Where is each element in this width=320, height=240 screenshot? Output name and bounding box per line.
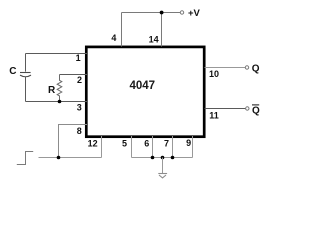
svg-text:C: C [9,66,16,77]
node: pin7 bus junction [171,156,175,160]
svg-text:+V: +V [188,8,201,19]
resistor R [57,75,62,102]
wire pin12 vertical [101,136,103,158]
svg-text:8: 8 [77,126,82,136]
wire ground bus [132,157,193,159]
svg-text:Q: Q [252,106,260,117]
trigger step input symbol [17,152,33,165]
wire pin3 (cap bottom to IC) [26,101,88,103]
IC U1 4047 (astable/monostable multivibrator) body with value label [86,47,204,137]
wire pin14 vertical [161,13,163,47]
svg-text:1: 1 [76,53,81,63]
svg-text:11: 11 [209,110,219,120]
svg-text:4: 4 [111,33,116,43]
wire pin4 vertical [121,13,123,47]
label Qbar [252,105,260,117]
svg-text:3: 3 [77,103,82,113]
svg-text:14: 14 [149,35,159,45]
svg-text:R: R [48,85,56,96]
ground [158,174,167,178]
node: R bottom junction [58,100,62,104]
wire +V top rail [122,12,181,14]
wire pin6 vertical [152,136,154,158]
capacitor C [20,54,31,102]
wire pin11 (IC right to Qbar terminal) [205,108,246,110]
node: pin8 rail junction [57,156,61,160]
node: ground stem junction [161,156,165,160]
terminal Q circle [245,66,248,69]
wire pin8 (IC left to down vertical) [59,125,88,158]
wire pin2 (R top to IC) [60,74,88,76]
svg-text:10: 10 [209,69,219,79]
terminal Qbar circle [246,107,249,110]
svg-text:6: 6 [144,139,149,149]
wire ground stem [162,158,164,174]
wire pin5 vertical [131,136,133,158]
wire bottom-left rail (trigger to pin12) [39,157,102,159]
wire pin1 (left, C top to IC) [26,53,88,55]
svg-text:7: 7 [164,139,169,149]
node: +V junction [160,11,164,15]
svg-text:Q: Q [252,64,260,75]
wire pin10 (IC right to Q terminal) [205,67,246,69]
svg-text:12: 12 [88,139,98,149]
terminal +V circle [180,11,183,14]
svg-text:9: 9 [186,138,191,148]
wire pin7 vertical [172,136,174,158]
node: pin6 bus junction [151,156,155,160]
wire pin9 vertical [192,136,194,158]
svg-text:4047: 4047 [130,80,156,92]
svg-text:5: 5 [122,139,127,149]
svg-text:2: 2 [77,75,82,85]
